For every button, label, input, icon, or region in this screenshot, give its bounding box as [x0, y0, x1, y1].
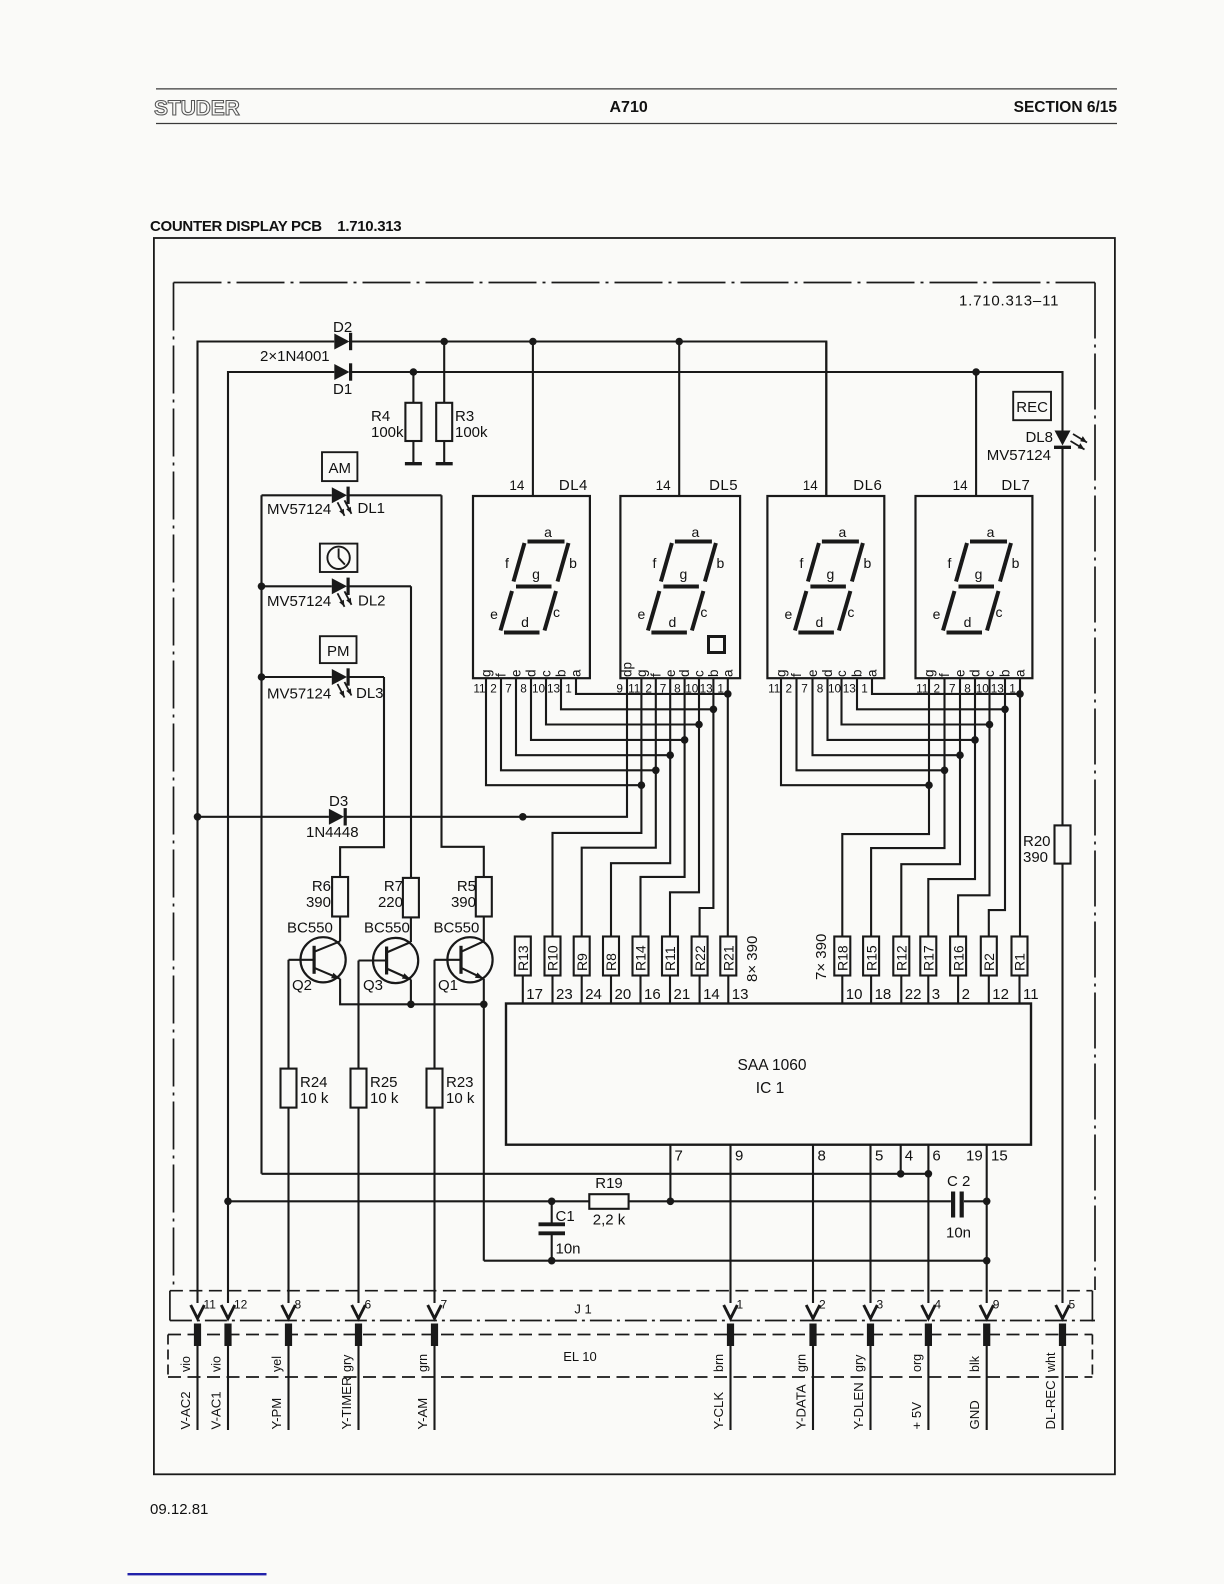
svg-text:10n: 10n — [556, 1241, 581, 1258]
svg-text:R19: R19 — [595, 1175, 623, 1192]
node DL7 segment f junction — [941, 767, 949, 775]
svg-text:R17: R17 — [921, 945, 937, 971]
wire SAA1060 pin 7 — [669, 1145, 671, 1202]
svg-text:IC 1: IC 1 — [756, 1080, 784, 1097]
resistor R6 — [332, 877, 348, 917]
node DL5 segment g junction — [638, 781, 646, 789]
svg-text:e: e — [663, 669, 678, 677]
svg-text:14: 14 — [803, 478, 819, 493]
wire DL7 segment g down to resistor — [842, 678, 929, 936]
wire DL6 segment a to DL7 — [872, 678, 1020, 694]
node pin 6 junction — [925, 1170, 933, 1178]
svg-text:J 1: J 1 — [574, 1302, 591, 1317]
svg-text:g: g — [634, 669, 649, 677]
wire Y-DATA — [812, 1346, 814, 1430]
svg-text:R16: R16 — [950, 945, 966, 971]
wire SAA1060 pin 6 to +5V — [927, 1145, 929, 1303]
node DL5 segment c junction — [695, 721, 703, 729]
svg-text:d: d — [968, 669, 983, 677]
junction dot R3 on D2 rail — [440, 338, 448, 346]
svg-text:R13: R13 — [515, 945, 531, 971]
connector pin 1 contact bar — [727, 1324, 734, 1347]
svg-text:b: b — [864, 555, 872, 571]
svg-text:9: 9 — [735, 1148, 743, 1165]
wire DL5 segment d down to resistor — [641, 678, 685, 936]
svg-text:22: 22 — [905, 986, 922, 1003]
svg-text:d: d — [820, 669, 835, 677]
wire DL6 segment e to DL7 — [813, 678, 961, 755]
svg-text:d: d — [964, 614, 972, 630]
node C1 bottom junction — [548, 1257, 556, 1265]
wire DL4 segment b to DL5 — [561, 678, 713, 709]
svg-text:DL2: DL2 — [358, 593, 386, 610]
svg-text:grn: grn — [416, 1354, 430, 1372]
display DL6 box and 7-segment — [767, 496, 884, 678]
svg-text:8: 8 — [818, 1148, 826, 1165]
DL5 decimal point window — [709, 637, 725, 653]
svg-text:BC550: BC550 — [434, 920, 480, 937]
svg-text:V-AC2: V-AC2 — [178, 1391, 193, 1429]
connector pin 4 fork — [922, 1305, 936, 1319]
svg-text:c: c — [847, 604, 854, 620]
svg-text:16: 16 — [644, 986, 661, 1003]
svg-text:24: 24 — [585, 986, 602, 1003]
node pin 4 junction — [897, 1170, 905, 1178]
svg-text:5: 5 — [875, 1148, 883, 1165]
clock icon box — [320, 544, 358, 572]
ground for R4 — [405, 462, 422, 465]
wire Q3 emitter — [410, 980, 412, 1005]
svg-text:SAA 1060: SAA 1060 — [738, 1057, 807, 1074]
connector pin 3 contact bar — [867, 1324, 874, 1347]
svg-text:100k: 100k — [371, 424, 404, 441]
display DL5 segment pin letters — [620, 662, 736, 677]
svg-text:f: f — [505, 555, 509, 571]
svg-text:f: f — [948, 555, 952, 571]
node DL5 segment d junction — [681, 736, 689, 744]
svg-text:5: 5 — [1069, 1298, 1076, 1312]
svg-text:b: b — [998, 669, 1013, 677]
svg-text:R2: R2 — [981, 953, 997, 971]
resistor R14 — [633, 937, 649, 976]
node DL7 segment g junction — [925, 781, 933, 789]
LED DL3 — [262, 676, 332, 678]
svg-text:b: b — [569, 555, 577, 571]
display DL5 pin 14 stem — [678, 342, 680, 497]
header top rule — [156, 88, 1117, 90]
svg-text:R15: R15 — [863, 945, 879, 971]
svg-text:2: 2 — [819, 1298, 826, 1312]
svg-text:DL6: DL6 — [853, 477, 882, 494]
svg-text:3: 3 — [877, 1298, 884, 1312]
svg-text:20: 20 — [615, 986, 632, 1003]
svg-text:13: 13 — [843, 682, 857, 696]
LED DL8 emission arrows — [1071, 434, 1088, 450]
svg-text:org: org — [910, 1354, 924, 1372]
connector pin 7 contact bar — [431, 1324, 438, 1347]
svg-text:MV57124: MV57124 — [987, 447, 1051, 464]
svg-text:f: f — [494, 673, 509, 677]
op-amp U1 SAA1060 IC1 box — [506, 1004, 1031, 1145]
svg-text:D3: D3 — [329, 793, 348, 810]
wire V-AC1 to R19 C1 C2 row — [228, 1200, 589, 1202]
cable EL10 dashed box — [168, 1334, 1092, 1336]
resistor R13 — [515, 937, 531, 976]
svg-text:12: 12 — [234, 1298, 248, 1312]
wire D1 cathode rail to DL8 — [351, 372, 1063, 431]
svg-text:R24: R24 — [300, 1074, 328, 1091]
junction dot DL2 anode — [258, 583, 266, 591]
svg-text:2×1N4001: 2×1N4001 — [260, 348, 330, 365]
connector pin 5 fork — [1056, 1305, 1070, 1319]
wire emitter line to GND — [484, 1260, 987, 1262]
svg-text:2,2 k: 2,2 k — [593, 1212, 626, 1229]
svg-text:14: 14 — [656, 478, 672, 493]
svg-text:g: g — [922, 669, 937, 677]
wire Q1 emitter down — [483, 979, 485, 1261]
node V-AC1 rail (D1 anode wire) — [228, 372, 334, 1303]
connector pin 9 fork — [980, 1305, 994, 1319]
svg-text:a: a — [1013, 669, 1028, 677]
wire DL7 segment d down to resistor — [928, 678, 975, 936]
wire DL-REC — [1061, 1346, 1063, 1430]
resistor R12 — [893, 937, 909, 976]
svg-text:c: c — [834, 670, 849, 677]
svg-text:vio: vio — [210, 1356, 224, 1372]
svg-text:1: 1 — [565, 682, 572, 696]
svg-text:yel: yel — [270, 1356, 284, 1372]
svg-text:10 k: 10 k — [370, 1090, 399, 1107]
connector pin 12 fork — [221, 1305, 235, 1319]
svg-text:3: 3 — [932, 986, 940, 1003]
svg-text:R23: R23 — [446, 1074, 474, 1091]
resistor R15 — [863, 937, 879, 976]
connector pin 6 contact bar — [355, 1324, 362, 1347]
connector pin 8 contact bar — [285, 1324, 292, 1347]
node DL7 segment b junction — [1001, 706, 1009, 714]
svg-text:a: a — [987, 524, 995, 540]
svg-text:a: a — [720, 669, 735, 677]
svg-text:09.12.81: 09.12.81 — [150, 1501, 208, 1518]
svg-text:R20: R20 — [1023, 833, 1051, 850]
display DL7 segment pin letters — [922, 669, 1028, 677]
svg-text:c: c — [692, 670, 707, 677]
svg-text:Y-DLEN: Y-DLEN — [851, 1382, 866, 1429]
LED DL2 — [262, 585, 332, 587]
pcb dash-dot border top — [174, 282, 1096, 284]
svg-text:8: 8 — [817, 682, 824, 696]
svg-text:1N4448: 1N4448 — [306, 824, 359, 841]
connector pin 11 contact bar — [194, 1324, 201, 1347]
svg-text:DL-REC: DL-REC — [1043, 1380, 1058, 1430]
svg-text:R12: R12 — [894, 945, 910, 971]
wire DL2 cathode to R7 — [410, 586, 412, 878]
svg-text:e: e — [490, 606, 498, 622]
connector pin 8 fork — [282, 1305, 296, 1319]
junction dot DL5 pin14 on D2 rail — [675, 338, 683, 346]
display DL5 pin numbers — [616, 682, 723, 696]
wire + 5V — [927, 1346, 929, 1430]
svg-text:R22: R22 — [692, 945, 708, 971]
wire DL5 segment g down to resistor — [553, 678, 642, 936]
transistor Q1 — [435, 937, 493, 982]
svg-text:Q1: Q1 — [438, 977, 458, 994]
svg-text:4: 4 — [905, 1148, 913, 1165]
wire DL6 segment c to DL7 — [842, 678, 990, 724]
wire DL3 cathode to R6 — [340, 677, 384, 877]
svg-text:C 2: C 2 — [947, 1173, 970, 1190]
svg-text:R4: R4 — [371, 408, 390, 425]
node V-AC1 junction — [224, 1198, 232, 1206]
wire DL5 segment a down to R21 — [727, 678, 729, 936]
svg-text:REC: REC — [1016, 399, 1048, 416]
svg-text:R1: R1 — [1012, 953, 1028, 971]
wire DL4 segment a to DL5 — [576, 678, 728, 694]
svg-text:R10: R10 — [545, 945, 561, 971]
svg-text:e: e — [509, 669, 524, 677]
svg-text:9: 9 — [993, 1298, 1000, 1312]
svg-text:11: 11 — [768, 682, 780, 696]
wire DL7 segment c down to resistor — [958, 678, 989, 936]
wire DL4 segment d to DL5 — [531, 678, 685, 740]
resistor R9 — [574, 937, 590, 976]
junction dot R4 on D1 rail — [410, 368, 418, 376]
svg-text:e: e — [933, 606, 941, 622]
svg-text:EL 10: EL 10 — [563, 1349, 597, 1364]
connector J1 left end — [169, 1291, 171, 1321]
svg-text:b: b — [1012, 555, 1020, 571]
connector pin 4 contact bar — [925, 1324, 932, 1347]
junction dot R13 top — [519, 813, 527, 821]
svg-text:19: 19 — [966, 1148, 983, 1165]
wire Y-DLEN — [869, 1346, 871, 1430]
junction dot DL3 anode — [258, 673, 266, 681]
wire DL4 segment g to DL5 — [486, 678, 641, 785]
connector pin 5 contact bar — [1059, 1324, 1066, 1347]
svg-text:A710: A710 — [610, 99, 648, 116]
resistor R25 — [351, 1069, 367, 1108]
pcb dash-dot border left — [173, 283, 175, 1291]
svg-text:390: 390 — [1023, 849, 1048, 866]
junction dot DL4 pin14 on D2 rail — [529, 338, 537, 346]
svg-text:14: 14 — [703, 986, 720, 1003]
wire Q3 base to R25 — [357, 961, 359, 1069]
svg-text:6: 6 — [932, 1148, 940, 1165]
node C1 top junction — [548, 1198, 556, 1206]
wire DL5 segment c down to resistor — [670, 678, 699, 936]
node pin 7 junction — [667, 1198, 675, 1206]
svg-text:Q3: Q3 — [363, 977, 383, 994]
node DL7 segment e junction — [956, 751, 964, 759]
svg-text:R21: R21 — [721, 945, 737, 971]
REC box — [1013, 392, 1051, 420]
svg-text:f: f — [799, 555, 803, 571]
svg-text:R8: R8 — [603, 953, 619, 971]
resistor R3 — [443, 342, 445, 403]
svg-text:R14: R14 — [633, 945, 649, 971]
svg-text:2: 2 — [490, 682, 497, 696]
wire DL5 segment f down to resistor — [582, 678, 656, 936]
resistor R5 — [476, 877, 492, 917]
svg-text:dp: dp — [620, 662, 635, 677]
svg-text:D2: D2 — [333, 319, 352, 336]
svg-text:18: 18 — [875, 986, 892, 1003]
pcb dash-dot border right — [1094, 283, 1096, 1291]
resistor R19 — [589, 1194, 628, 1209]
resistor R17 — [920, 937, 936, 976]
header bottom rule — [156, 123, 1117, 125]
node V-AC2 rail (D2 anode wire) — [198, 342, 335, 1304]
svg-text:e: e — [785, 606, 793, 622]
svg-text:vio: vio — [179, 1356, 193, 1372]
node GND line junction — [983, 1257, 991, 1265]
wire D2 cathode rail to DL6 pin14 — [351, 342, 827, 497]
svg-text:11: 11 — [204, 1298, 217, 1312]
svg-text:100k: 100k — [455, 424, 488, 441]
display DL4 pin 14 stem — [532, 342, 534, 497]
resistor R23 — [427, 1069, 443, 1108]
svg-text:1.710.313–11: 1.710.313–11 — [959, 293, 1059, 310]
display DL6 pin 14 stem — [825, 342, 827, 497]
connector pin 3 fork — [864, 1305, 878, 1319]
svg-text:f: f — [648, 673, 663, 677]
svg-text:8× 390: 8× 390 — [744, 936, 761, 982]
svg-text:c: c — [700, 604, 707, 620]
diode D1 — [334, 364, 349, 380]
connector pin 7 fork — [428, 1305, 442, 1319]
svg-text:1: 1 — [861, 682, 868, 696]
resistor R7 — [403, 878, 419, 918]
svg-text:a: a — [692, 524, 700, 540]
wire Q1 base to R23 — [433, 960, 435, 1069]
LED DL1 — [262, 494, 332, 496]
wire DL7 segment b down to resistor — [989, 678, 1005, 936]
connector pin 2 contact bar — [809, 1324, 816, 1347]
capacitor C2 — [951, 1192, 955, 1218]
svg-text:f: f — [937, 673, 952, 677]
svg-text:Y-PM: Y-PM — [269, 1398, 284, 1430]
svg-text:13: 13 — [732, 986, 749, 1003]
svg-text:13: 13 — [547, 682, 561, 696]
svg-text:8: 8 — [295, 1298, 302, 1312]
wire DL6 segment d to DL7 — [828, 678, 976, 740]
ground for R3 — [436, 462, 453, 465]
svg-text:7× 390: 7× 390 — [813, 934, 830, 980]
wire DL1 cathode to R5 — [442, 495, 484, 877]
svg-text:e: e — [953, 669, 968, 677]
svg-text:Y-CLK: Y-CLK — [711, 1392, 726, 1430]
connector pin 2 fork — [806, 1305, 820, 1319]
wire SAA1060 pin 4 — [900, 1145, 902, 1174]
svg-text:g: g — [532, 566, 540, 582]
svg-text:b: b — [706, 669, 721, 677]
svg-text:c: c — [982, 670, 997, 677]
connector pin 6 fork — [352, 1305, 366, 1319]
resistor R4 — [412, 372, 414, 403]
svg-text:brn: brn — [712, 1354, 726, 1372]
resistor R20 — [1055, 825, 1071, 863]
svg-text:a: a — [865, 669, 880, 677]
svg-text:f: f — [789, 673, 804, 677]
capacitor C1 — [551, 1201, 553, 1222]
wire SAA1060 pins 19 15 to GND — [986, 1145, 988, 1303]
svg-text:2: 2 — [785, 682, 792, 696]
svg-text:gry: gry — [852, 1354, 866, 1372]
svg-text:220: 220 — [378, 894, 403, 911]
svg-text:8: 8 — [520, 682, 527, 696]
svg-text:V-AC1: V-AC1 — [209, 1391, 224, 1429]
svg-text:COUNTER DISPLAY PCB 1.710.3: COUNTER DISPLAY PCB 1.710.313 — [150, 218, 401, 235]
connector pin 11 fork — [191, 1305, 205, 1319]
svg-text:d: d — [521, 614, 529, 630]
svg-text:390: 390 — [451, 894, 476, 911]
LED DL8 — [1055, 431, 1071, 446]
svg-text:g: g — [680, 566, 688, 582]
svg-text:c: c — [539, 670, 554, 677]
schematic outer border — [154, 238, 1115, 1474]
node DL5 segment a junction — [724, 690, 732, 698]
node C2 right junction — [983, 1198, 991, 1206]
connector pin 1 fork — [724, 1305, 738, 1319]
wire Y-CLK — [729, 1346, 731, 1430]
wire DL7 segment f down to resistor — [871, 678, 944, 936]
svg-text:10: 10 — [532, 682, 546, 696]
resistor R16 — [950, 937, 966, 976]
svg-text:R7: R7 — [384, 878, 403, 895]
node Q1 emitter junction — [480, 1001, 488, 1009]
wire DL7 segment a down to R1 — [1019, 678, 1021, 936]
svg-text:d: d — [524, 669, 539, 677]
svg-text:g: g — [479, 669, 494, 677]
AM box — [322, 452, 357, 481]
wire DL5 segment e down to resistor — [611, 678, 670, 936]
display DL7 pin numbers — [916, 682, 1016, 696]
svg-text:Y-TIMER: Y-TIMER — [339, 1377, 354, 1430]
svg-text:GND: GND — [967, 1400, 982, 1429]
svg-text:BC550: BC550 — [287, 920, 333, 937]
node DL5 segment f junction — [652, 767, 660, 775]
display DL6 segment pin letters — [774, 669, 880, 677]
node DL7 segment c junction — [986, 721, 994, 729]
display DL4 segment pin letters — [479, 669, 584, 677]
resistor R8 — [603, 937, 619, 976]
wire DL4 segment e to DL5 — [516, 678, 670, 755]
resistor R10 — [545, 937, 561, 976]
svg-text:R9: R9 — [574, 953, 590, 971]
node Q3 emitter junction — [407, 1001, 415, 1009]
resistor R22 — [692, 937, 708, 976]
wire Y-PM — [287, 1346, 289, 1430]
node DL5 segment e junction — [666, 751, 674, 759]
display DL7 pin 14 stem — [975, 372, 977, 496]
svg-text:14: 14 — [509, 478, 525, 493]
wire GND — [986, 1346, 988, 1430]
svg-text:a: a — [569, 669, 584, 677]
svg-text:g: g — [975, 566, 983, 582]
svg-text:SECTION 6/15: SECTION 6/15 — [1014, 99, 1118, 116]
svg-text:1: 1 — [737, 1298, 744, 1312]
svg-text:DL8: DL8 — [1025, 429, 1053, 446]
svg-text:R18: R18 — [835, 945, 851, 971]
wire anode bus to pins 4 and 6 — [262, 1173, 929, 1175]
svg-text:DL4: DL4 — [559, 477, 588, 494]
svg-text:d: d — [816, 614, 824, 630]
svg-text:21: 21 — [674, 986, 691, 1003]
display DL4 pin numbers — [473, 682, 571, 696]
svg-text:wht: wht — [1044, 1352, 1058, 1373]
svg-text:a: a — [839, 524, 847, 540]
svg-text:c: c — [996, 604, 1003, 620]
